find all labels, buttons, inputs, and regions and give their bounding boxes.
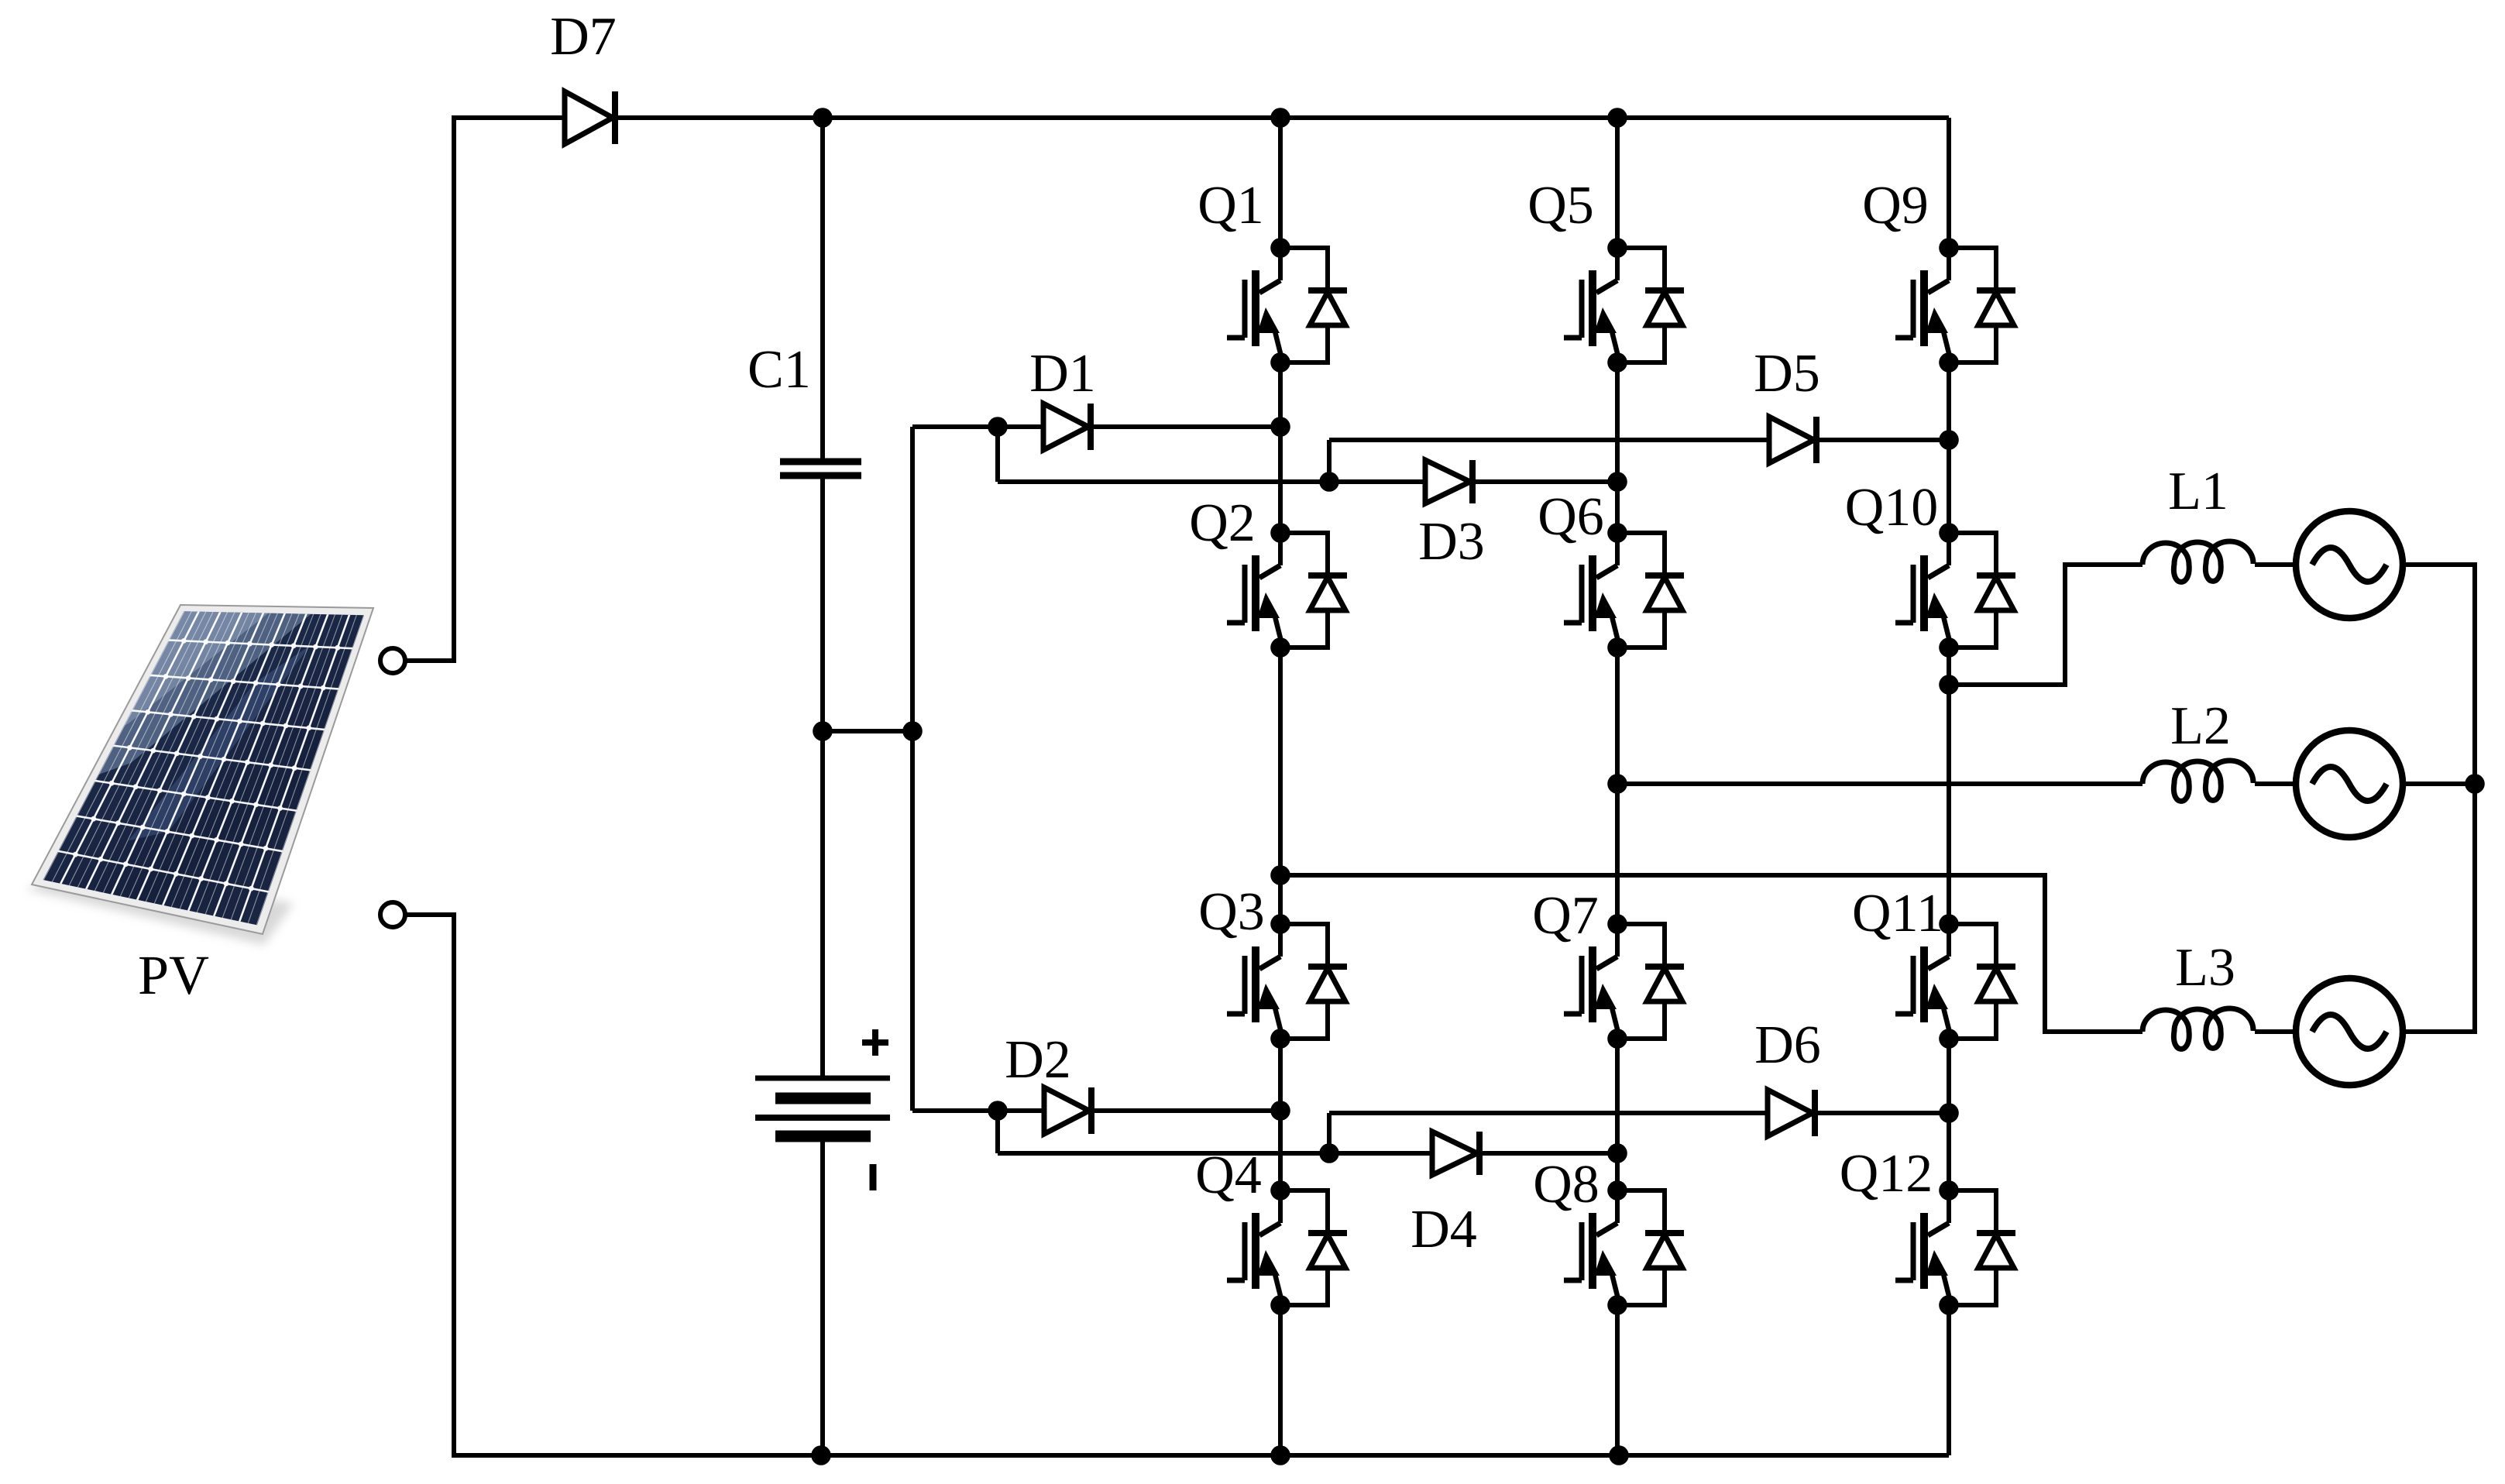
inductor L2	[2142, 696, 2253, 801]
svg-text:Q8: Q8	[1533, 1155, 1600, 1214]
wire: D6 anode line	[1329, 1111, 1768, 1115]
transistor Q1 (IGBT with anti-parallel diode)	[1198, 176, 1347, 373]
junction: D6 at column 3	[1939, 1103, 1959, 1123]
junction: right bus common node	[2465, 774, 2485, 794]
svg-text:Q3: Q3	[1198, 882, 1265, 942]
junction: phase C tap on column 1	[1270, 865, 1290, 885]
transistor Q8 (IGBT with anti-parallel diode)	[1533, 1155, 1684, 1315]
wire: column 1 row1 to row2	[1278, 362, 1283, 533]
wire: mid rail to D1 anode	[912, 424, 1043, 429]
diode D1	[1029, 344, 1096, 450]
junction: bottom bus at column 2	[1609, 1445, 1629, 1465]
wire: column 1 top bus to row1	[1278, 118, 1283, 248]
svg-text:L2: L2	[2170, 696, 2231, 756]
wire: D5 cathode to column 3	[1816, 438, 1949, 442]
junction: top bus at C1	[813, 108, 833, 128]
AC source AC source phase A	[2296, 511, 2403, 618]
wire: L2 to AC source 2	[2255, 782, 2296, 786]
wire: bottom DC bus	[452, 1453, 1949, 1458]
svg-text:L3: L3	[2175, 938, 2235, 998]
wire: D5 anode line	[1329, 438, 1769, 442]
inductor L3	[2142, 938, 2253, 1049]
wire: column 2 top bus to row1	[1615, 118, 1620, 248]
capacitor C1	[747, 340, 861, 476]
wire: mid rail vertical	[910, 427, 915, 1111]
wire: L3 to AC source 3	[2255, 1029, 2296, 1034]
svg-text:D2: D2	[1005, 1030, 1071, 1090]
transistor Q6 (IGBT with anti-parallel diode)	[1538, 487, 1684, 658]
AC source AC source phase C	[2296, 978, 2403, 1085]
wire: D4 cathode to column 2	[1479, 1151, 1617, 1156]
junction: D6 tap on D4 line	[1319, 1143, 1339, 1163]
wire: D1 cathode to column 1	[1091, 424, 1280, 429]
svg-text:Q1: Q1	[1198, 176, 1264, 235]
junction: node A at mid rail	[902, 721, 923, 741]
wire: AC source 2 to right bus	[2403, 782, 2475, 786]
svg-text:Q4: Q4	[1195, 1146, 1262, 1205]
transistor Q10 (IGBT with anti-parallel diode)	[1845, 478, 2015, 658]
wire: node A jog	[823, 729, 912, 733]
svg-text:Q6: Q6	[1538, 487, 1604, 547]
svg-text:Q5: Q5	[1527, 176, 1594, 235]
svg-text:D4: D4	[1411, 1200, 1477, 1259]
wire: column 2 row4 to bottom bus	[1615, 1305, 1620, 1455]
wire: phase C to L3	[1280, 875, 2142, 1032]
wire: PV positive terminal to top bus	[405, 120, 454, 661]
transistor Q2 (IGBT with anti-parallel diode)	[1189, 493, 1347, 658]
wire: phase A to L1	[1949, 565, 2142, 685]
svg-text:Q11: Q11	[1852, 884, 1943, 943]
wire: battery to bottom bus	[820, 1136, 825, 1453]
diode D4	[1411, 1132, 1479, 1259]
transistor Q7 (IGBT with anti-parallel diode)	[1532, 886, 1684, 1049]
wire: mid rail to D2 anode	[912, 1108, 1044, 1113]
battery	[755, 1029, 890, 1190]
wire: node A to battery	[820, 731, 825, 1078]
transistor Q4 (IGBT with anti-parallel diode)	[1195, 1146, 1347, 1315]
wire: column 2 row2 to row3	[1615, 648, 1620, 924]
junction: top bus at column 2	[1607, 108, 1627, 128]
junction: D5 at column 3	[1939, 430, 1959, 450]
wire: top DC bus	[452, 115, 1949, 120]
diode D6	[1754, 1015, 1821, 1136]
wire: column 2 row1 to row2	[1615, 362, 1620, 533]
wire: column 3 row3 to row4	[1947, 1039, 1951, 1190]
wire: column 3 row2 to row3	[1947, 648, 1951, 924]
svg-text:L1: L1	[2168, 462, 2228, 521]
wire: column 2 row3 to row4	[1615, 1039, 1620, 1190]
svg-text:Q7: Q7	[1532, 886, 1599, 946]
wire: D6 riser	[1327, 1113, 1332, 1153]
wire: column 1 row4 to bottom bus	[1278, 1305, 1283, 1455]
svg-text:Q9: Q9	[1862, 176, 1929, 235]
svg-text:D1: D1	[1029, 344, 1096, 404]
transistor Q5 (IGBT with anti-parallel diode)	[1527, 176, 1684, 373]
transistor Q9 (IGBT with anti-parallel diode)	[1862, 176, 2015, 373]
wire: phase B to L2	[1617, 782, 2142, 786]
wire: D3 anode line	[998, 479, 1425, 484]
wire: column 3 row1 to row2	[1947, 362, 1951, 533]
wire: L1 to AC source 1	[2255, 562, 2296, 567]
wire: drop to D3 line	[995, 427, 1000, 482]
svg-text:D5: D5	[1754, 344, 1820, 404]
diode D5	[1754, 344, 1820, 463]
wire: top bus to capacitor C1	[820, 118, 825, 462]
junction: D2 at column 1	[1270, 1101, 1290, 1121]
junction: D2 anode tap	[988, 1101, 1008, 1121]
junction: D1 at column 1	[1270, 417, 1290, 437]
wire: capacitor C1 to node A	[820, 476, 825, 731]
svg-text:PV: PV	[138, 944, 209, 1006]
svg-text:D3: D3	[1418, 512, 1485, 572]
svg-text:D7: D7	[550, 7, 617, 67]
wire: D4 anode line	[998, 1151, 1432, 1156]
svg-text:Q2: Q2	[1189, 493, 1256, 553]
junction: node A at C1 leg	[813, 721, 833, 741]
transistor Q11 (IGBT with anti-parallel diode)	[1852, 884, 2015, 1049]
diode D7	[550, 7, 617, 144]
wire: column 1 row3 to row4	[1278, 1039, 1283, 1190]
PV negative terminal	[380, 902, 405, 927]
wire: D6 cathode to column 3	[1815, 1111, 1949, 1115]
inductor L1	[2142, 462, 2253, 582]
transistor Q12 (IGBT with anti-parallel diode)	[1840, 1144, 2015, 1315]
wire: D5 riser	[1327, 440, 1332, 482]
AC source AC source phase B	[2296, 730, 2403, 837]
diode D2	[1005, 1030, 1091, 1134]
svg-text:Q10: Q10	[1845, 478, 1939, 538]
svg-text:C1: C1	[747, 340, 811, 400]
junction: D5 tap on D3 line	[1319, 472, 1339, 492]
junction: top bus at column 1	[1270, 108, 1290, 128]
junction: phase B tap on column 2	[1607, 774, 1627, 794]
wire: drop to D4 line	[995, 1111, 1000, 1153]
junction: D4 at column 2	[1607, 1143, 1627, 1163]
wire: column 3 row4 to bottom bus	[1947, 1305, 1951, 1455]
transistor Q3 (IGBT with anti-parallel diode)	[1198, 882, 1347, 1049]
diode D3	[1418, 460, 1485, 572]
junction: phase A tap on column 3	[1939, 675, 1959, 695]
wire: PV negative terminal to bottom bus	[405, 915, 454, 1453]
PV panel (photovoltaic module)	[26, 605, 373, 1006]
wire: AC source 3 to right bus	[2403, 784, 2475, 1032]
junction: D1 anode tap	[988, 417, 1008, 437]
wire: D3 cathode to column 2	[1472, 479, 1617, 484]
wire: D2 cathode to column 1	[1091, 1108, 1280, 1113]
junction: bottom bus at column 1	[1270, 1445, 1290, 1465]
svg-text:Q12: Q12	[1840, 1144, 1933, 1204]
junction: bottom bus at battery	[811, 1445, 831, 1465]
wire: AC source 1 to right bus	[2403, 565, 2475, 784]
wire: column 3 top bus to row1	[1947, 118, 1951, 248]
junction: D3 at column 2	[1607, 472, 1627, 492]
wire: column 1 row2 to row3	[1278, 648, 1283, 924]
PV positive terminal	[380, 648, 405, 673]
svg-text:D6: D6	[1754, 1015, 1821, 1075]
